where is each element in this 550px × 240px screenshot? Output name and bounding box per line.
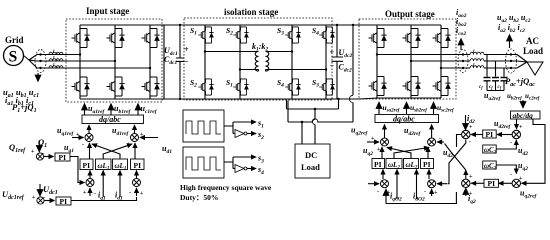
svg-text:+: +: [32, 195, 36, 201]
svg-text:+: +: [469, 125, 473, 131]
svg-text:+: +: [140, 132, 144, 138]
svg-text:+: +: [140, 191, 144, 197]
svg-text:-: -: [82, 142, 84, 148]
svg-text:-: -: [94, 191, 96, 197]
svg-text:isolation stage: isolation stage: [224, 7, 278, 17]
svg-text:Duty：50%: Duty：50%: [180, 193, 218, 202]
svg-text:Load: Load: [301, 162, 320, 172]
svg-text:PI: PI: [486, 130, 494, 139]
svg-text:PI: PI: [59, 153, 67, 162]
svg-text:+: +: [371, 136, 375, 142]
svg-text:+: +: [184, 45, 189, 54]
svg-text:-: -: [424, 189, 426, 195]
svg-text:-: -: [439, 136, 441, 142]
svg-text:dq/abc: dq/abc: [393, 114, 415, 123]
svg-text:-: -: [510, 172, 512, 178]
svg-text:+: +: [330, 48, 335, 57]
svg-text:Input stage: Input stage: [86, 6, 129, 16]
svg-text:PI: PI: [423, 160, 431, 169]
svg-text:PI: PI: [60, 197, 68, 206]
svg-text:PI: PI: [134, 161, 142, 170]
svg-text:+: +: [31, 149, 35, 155]
svg-text:abc/dq: abc/dq: [513, 111, 534, 120]
svg-text:+: +: [469, 174, 473, 180]
svg-text:PI: PI: [374, 160, 382, 169]
svg-text:S: S: [9, 49, 18, 66]
svg-text:DC: DC: [305, 150, 317, 160]
svg-text:+: +: [519, 125, 523, 131]
svg-text:-: -: [129, 190, 131, 196]
svg-text:+: +: [387, 190, 391, 196]
svg-text:+: +: [83, 190, 87, 196]
svg-text:Output stage: Output stage: [385, 9, 435, 19]
svg-text:Grid: Grid: [5, 35, 24, 45]
svg-text:+: +: [377, 147, 381, 153]
svg-text:+: +: [434, 190, 438, 196]
svg-text:−: −: [184, 57, 189, 66]
svg-text:dq/abc: dq/abc: [99, 115, 121, 124]
svg-text:+: +: [469, 191, 473, 197]
svg-text:-: -: [377, 189, 379, 195]
svg-text:High frequency square wave: High frequency square wave: [180, 183, 272, 192]
svg-text:-: -: [510, 140, 512, 146]
svg-text:Load: Load: [523, 46, 543, 56]
svg-text:+: +: [76, 132, 80, 138]
svg-text:+: +: [519, 176, 523, 182]
svg-text:-: -: [469, 139, 471, 145]
svg-text:−: −: [330, 62, 335, 71]
svg-text:AC: AC: [526, 36, 539, 46]
svg-text:PI: PI: [488, 179, 496, 188]
svg-text:PI: PI: [83, 161, 91, 170]
